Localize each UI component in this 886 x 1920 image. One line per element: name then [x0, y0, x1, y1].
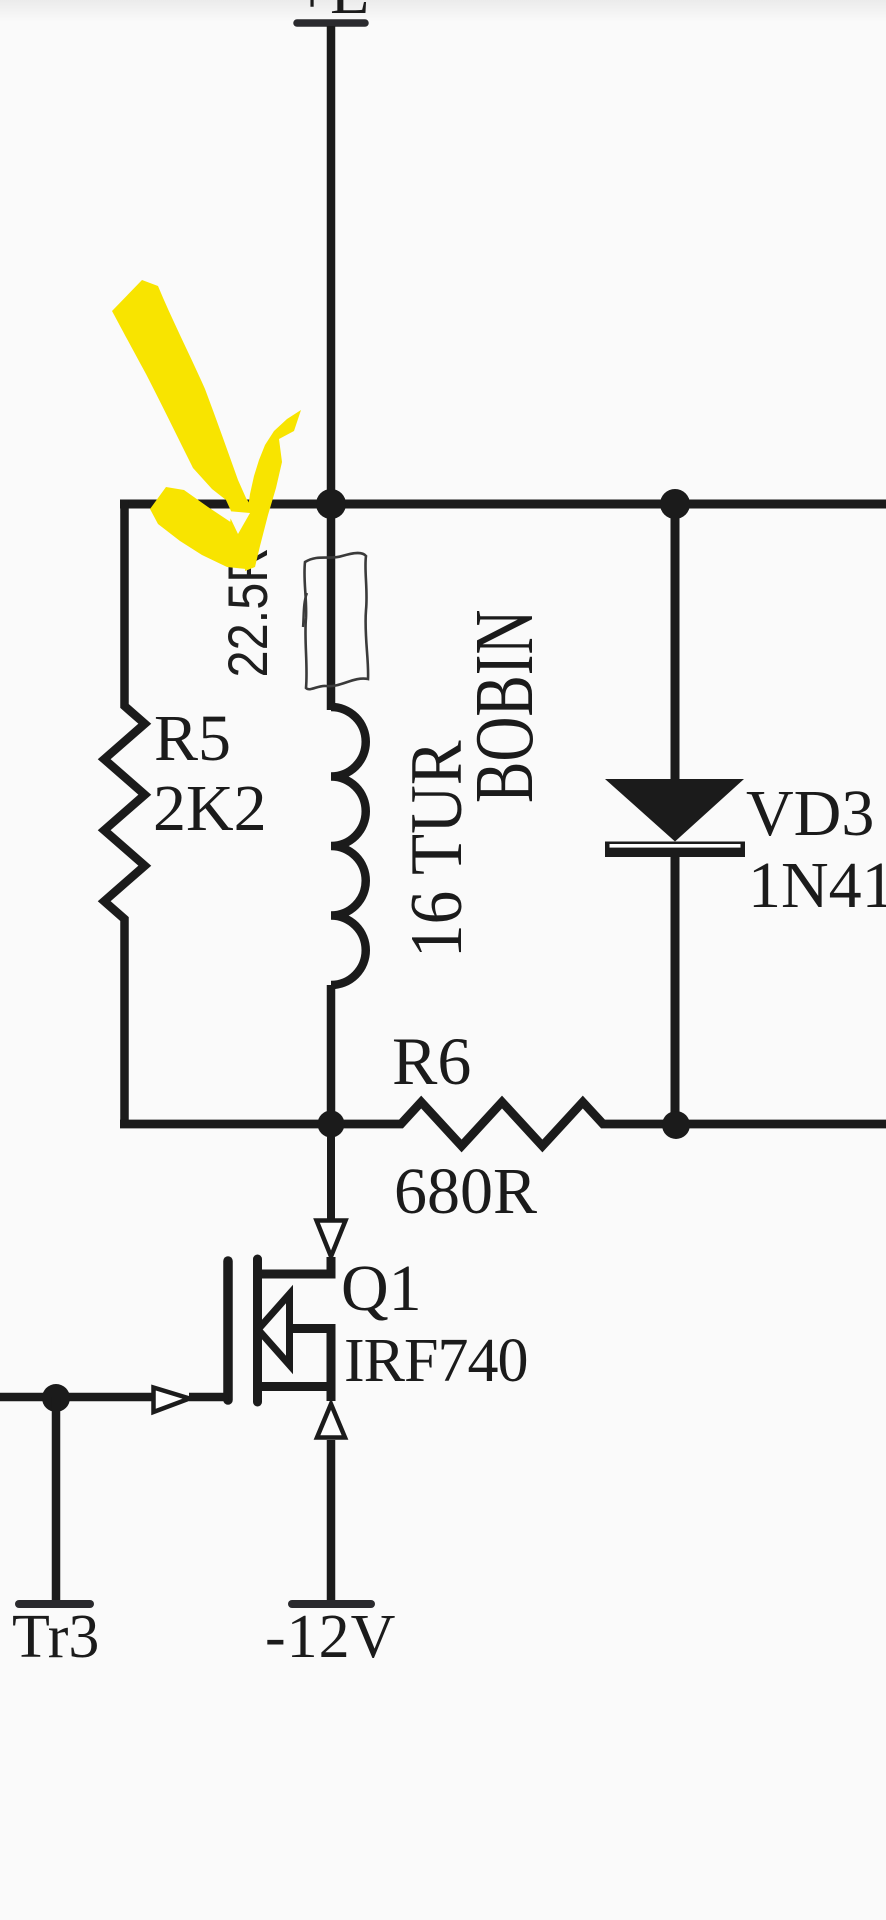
hand-drawn scribble box on coil — [304, 553, 368, 689]
wire: diode to bottom node — [671, 856, 680, 1128]
junction dot gate node — [42, 1384, 70, 1412]
wire: bottom node down to drain arrow — [327, 1120, 335, 1219]
wire: source arrow down to -12V — [327, 1440, 336, 1601]
left branch wire with resistor R5 zigzag — [104, 500, 145, 1128]
junction dot bottom-left node — [318, 1111, 345, 1138]
junction dot top-left node — [316, 489, 346, 519]
Tr3 terminal bar — [19, 1600, 90, 1608]
diode VD3 triangle — [605, 779, 744, 842]
wire: top node down to coil — [327, 500, 336, 710]
svg-text:BOBIN: BOBIN — [457, 610, 550, 803]
drain arrow (hollow, pointing down) — [317, 1221, 346, 1257]
diode VD3 cathode bar — [605, 842, 745, 858]
mosfet Q1 body diode arrow (hollow, pointing left) — [258, 1294, 290, 1365]
svg-text:1N4148: 1N4148 — [748, 849, 886, 922]
wire: drain arrow to drain arm — [257, 1257, 331, 1274]
wire: coil bottom to bottom node — [327, 985, 336, 1128]
junction dot bottom-right node — [662, 1111, 690, 1139]
mosfet Q1 body arm — [288, 1329, 331, 1387]
svg-text:2K2: 2K2 — [153, 772, 267, 845]
inductor L1 coil (16 TUR BOBIN) — [331, 707, 366, 985]
wire: top horizontal rail — [120, 500, 886, 509]
scribble inner squiggle — [303, 593, 307, 627]
svg-text:Tr3: Tr3 — [12, 1603, 99, 1671]
mosfet Q1 channel bar — [253, 1259, 262, 1402]
wire: gate node down to Tr3 — [52, 1397, 61, 1601]
mosfet Q1 source arm — [257, 1387, 331, 1402]
gate wire arrow to gate bar — [189, 1394, 224, 1397]
white notch inside arrow — [227, 511, 250, 534]
wire: right branch vertical (top) — [671, 500, 680, 780]
svg-text:680R: 680R — [394, 1155, 537, 1228]
-12V terminal bar — [292, 1600, 371, 1608]
svg-text:IRF740: IRF740 — [344, 1327, 527, 1395]
source arrow (hollow, pointing up) — [317, 1404, 345, 1438]
wire: +E bar down to top node — [327, 26, 336, 504]
+E supply terminal bar — [297, 19, 365, 27]
gate arrow (hollow, pointing right) — [154, 1388, 190, 1413]
mosfet Q1 gate bar — [223, 1261, 233, 1400]
svg-text:R5: R5 — [154, 702, 231, 775]
svg-text:R6: R6 — [392, 1023, 471, 1099]
yellow highlighter arrow right flick — [245, 410, 301, 571]
junction dot top-right node — [660, 489, 690, 519]
yellow highlighter arrow shaft — [112, 280, 260, 566]
svg-text:VD3: VD3 — [746, 777, 874, 850]
svg-text:-12V: -12V — [265, 1603, 396, 1671]
gate wire from left edge — [0, 1393, 152, 1402]
yellow highlighter arrow chevron — [150, 487, 252, 569]
svg-text:Q1: Q1 — [341, 1252, 422, 1325]
wire: bottom horizontal rail with resistor R6 zigzag — [120, 1102, 886, 1146]
